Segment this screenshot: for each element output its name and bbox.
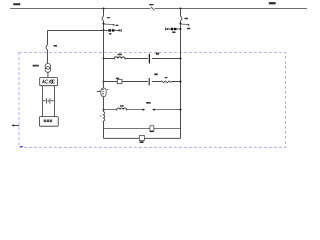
inductor L11 (114, 54, 125, 60)
wire fuse branch (104, 29, 120, 31)
wire right feeder drop (180, 9, 182, 17)
wire rung4 (104, 128, 181, 130)
wire DC- (54, 86, 56, 117)
wire battery branch drop (47, 31, 49, 45)
wire to battery branch (48, 30, 104, 32)
contactor K1 (116, 78, 122, 84)
bus 10kV label (13, 3, 20, 5)
fuse FU2 (171, 28, 177, 33)
node rung2 right (180, 81, 182, 83)
disconnector QS4 (46, 45, 57, 50)
node rung1 right (180, 58, 182, 60)
node B (bus tap right feeder) (180, 8, 182, 10)
disconnector QS2 (181, 16, 188, 20)
battery BT1 (43, 98, 55, 103)
annotation arrow into left border (11, 124, 19, 126)
wire rung2 (104, 81, 181, 83)
node A (bus tap left feeder) (103, 8, 105, 10)
wire DC+ (42, 86, 44, 117)
wire right rail (180, 21, 182, 139)
transducer TA1 (139, 136, 144, 143)
plug contact right (119, 29, 122, 32)
fuse FU3 (150, 126, 154, 132)
plug pair XP1 (143, 102, 155, 111)
bus label right (269, 2, 276, 4)
bus (10, 8, 307, 10)
wire rung5 (104, 137, 181, 139)
capacitor C11 (149, 53, 159, 64)
blue corner mark (20, 146, 23, 147)
wire fuse branch left (167, 28, 180, 30)
wire left rail (103, 59, 105, 139)
wire rung1 (104, 58, 181, 60)
battery cabinet box (39, 117, 58, 127)
node tap F2 (180, 23, 182, 25)
fuse FU1 (108, 29, 114, 34)
wire to transformer (47, 50, 49, 64)
disconnector QS1 (102, 16, 110, 20)
transformer T1 label (33, 65, 39, 67)
node rung3 right (180, 109, 182, 111)
winding sensor W1 (97, 88, 109, 97)
plug contact left (165, 27, 168, 30)
wire left feeder drop (103, 9, 105, 17)
wire to ACDC (47, 72, 49, 77)
wire rung3 (104, 109, 181, 111)
arrester tap F1 (104, 24, 119, 26)
dashed enclosure box (19, 53, 286, 148)
capacitor C12 (149, 73, 158, 85)
arrester tap F2 (181, 24, 191, 30)
node tap FU2 (180, 28, 182, 30)
wire left feeder (103, 21, 105, 59)
node rung1 left (103, 58, 105, 60)
shunt inductor arcs (100, 111, 105, 121)
inductor L12 (117, 105, 127, 111)
node rung3 left (103, 109, 105, 111)
node rung2 left (103, 81, 105, 83)
node tap FU1 (103, 29, 105, 31)
converter U1 AC/DC (40, 78, 58, 86)
node tap F1 (103, 23, 105, 25)
bus tie disconnector QS0 (149, 4, 154, 10)
resistor R1 (161, 77, 171, 83)
transformer T1 (45, 63, 51, 72)
